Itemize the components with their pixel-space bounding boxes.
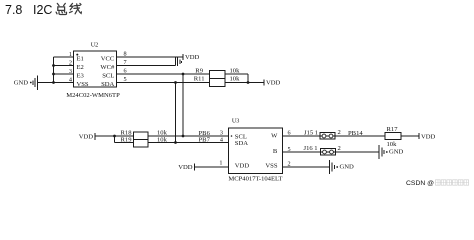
resistor R18 body (134, 132, 149, 140)
svg-text:2: 2 (338, 129, 341, 136)
svg-text:10k: 10k (230, 68, 241, 75)
svg-text:4: 4 (220, 136, 223, 143)
wire U3 B pin5 to J16 (283, 151, 321, 153)
svg-text:10k: 10k (157, 136, 168, 143)
svg-text:J16 1: J16 1 (304, 145, 318, 152)
wire U2 pin4 stub / GND wire (38, 82, 74, 84)
junction SDA drop (174, 81, 177, 84)
wire U3 pin1 VDD stub (195, 166, 230, 168)
wire U2 pin2 stub (54, 65, 74, 67)
resistor R17 body (385, 133, 401, 140)
power VDD bar at U3 pin1 (194, 163, 196, 170)
svg-text:6: 6 (288, 130, 291, 137)
wire U2 pin3 stub (54, 73, 74, 75)
junction U2 bus pin4 (52, 81, 55, 84)
svg-text:VSS: VSS (265, 163, 277, 170)
watermark hanzi blocks (436, 180, 469, 185)
resistor R9 body (210, 71, 226, 79)
U3 pin marker dot (231, 135, 233, 137)
ground bars after J16 (378, 145, 380, 159)
wire U2 left bus vertical (53, 57, 55, 83)
power VDD bar left (R18/R19) (94, 133, 96, 140)
wire WC# pin7 stub (117, 65, 176, 67)
wire J16 to GND (335, 151, 378, 153)
svg-text:6: 6 (123, 68, 126, 75)
svg-text:PB7: PB7 (199, 137, 211, 144)
svg-text:7: 7 (123, 59, 126, 66)
svg-text:E1: E1 (77, 56, 84, 63)
jumper J15 pin circles (322, 134, 333, 154)
junction PB7-SDA (174, 141, 177, 144)
svg-text:VDD: VDD (266, 80, 281, 87)
svg-text:J15 1: J15 1 (304, 129, 318, 136)
junction SCL drop (182, 73, 185, 76)
svg-text:VDD: VDD (178, 164, 193, 171)
svg-text:R19: R19 (121, 137, 133, 144)
svg-text:10k: 10k (230, 76, 241, 83)
svg-text:7.8: 7.8 (5, 3, 22, 17)
wire VDD fork vertical (114, 136, 116, 143)
svg-text:R18: R18 (121, 130, 133, 137)
svg-text:8: 8 (123, 51, 126, 58)
ground bars at VSS (328, 160, 330, 174)
title hanzi 总 (56, 3, 66, 14)
svg-text:R11: R11 (194, 76, 205, 83)
svg-text:I2C: I2C (33, 3, 52, 17)
wire U2 pin1 stub (54, 56, 74, 58)
svg-text:M24C02-WMN6TP: M24C02-WMN6TP (66, 92, 120, 99)
svg-text:E2: E2 (77, 64, 84, 71)
wire SCL pin6 to R9 (117, 73, 210, 75)
jumper J15 through wire (320, 135, 335, 137)
svg-text:GND: GND (389, 149, 404, 156)
power VDD bar right of R17 (418, 133, 420, 139)
ground dot VSS (336, 166, 338, 168)
svg-text:PB14: PB14 (348, 130, 363, 137)
digipot IC U3 box (229, 128, 283, 173)
svg-text:2: 2 (288, 161, 291, 168)
wire PB6 net R18 to U3 (148, 135, 229, 137)
wire R17 to VDD (401, 135, 419, 137)
resistor R11 body (210, 79, 226, 87)
title hanzi 线 (70, 3, 82, 13)
junction U2 bus pin3 (52, 73, 55, 76)
resistor R19 body (134, 140, 149, 148)
svg-text:E3: E3 (77, 73, 85, 80)
junction PB6-SCL (182, 135, 185, 138)
junction U2 bus pin2 (52, 64, 55, 67)
svg-text:VSS: VSS (77, 81, 89, 88)
wire R9-R11 join vertical (247, 74, 249, 83)
svg-text:3: 3 (69, 68, 72, 75)
svg-text:SCL: SCL (102, 73, 114, 80)
wire R11 right to VDD (225, 82, 264, 84)
wire SDA pin5 to R11 (117, 82, 210, 84)
svg-text:CSDN @: CSDN @ (406, 180, 434, 187)
wire VDD to R18 (95, 135, 134, 137)
jumper J16 body (321, 148, 336, 155)
wire U3 W pin6 to J15 (283, 135, 321, 137)
svg-text:MCP4017T-104ELT: MCP4017T-104ELT (228, 176, 282, 183)
wire J15 to R17 (PB14) (335, 135, 385, 137)
svg-text:1: 1 (69, 51, 72, 58)
wire VCC pin8 to VDD (117, 56, 184, 58)
wire SDA drop to PB7 (175, 83, 177, 143)
wire U3 VSS pin2 to GND (283, 166, 330, 168)
wire fork to R19 (115, 142, 134, 144)
ground dot J16 (386, 151, 388, 153)
junction VDD fork (113, 135, 116, 138)
svg-text:R17: R17 (387, 126, 399, 133)
power VDD bar pullups (263, 80, 265, 86)
ground dot left (30, 82, 32, 84)
svg-text:VDD: VDD (235, 163, 250, 170)
svg-text:2: 2 (69, 59, 72, 66)
svg-text:VDD: VDD (421, 133, 436, 140)
svg-text:W: W (271, 133, 278, 140)
wire tie VCC-WC# vertical (175, 57, 177, 66)
svg-text:SDA: SDA (101, 81, 114, 88)
wire SCL drop to PB6 (182, 74, 184, 136)
wire R9 right (225, 73, 248, 75)
jumper J16 pin circles (323, 150, 327, 154)
wire PB7 net R19 to U3 (148, 142, 229, 144)
op IC U2 box (74, 51, 117, 87)
svg-text:B: B (273, 148, 278, 155)
junction pullup join (247, 81, 250, 84)
svg-text:WC#: WC# (100, 64, 115, 71)
svg-text:GND: GND (14, 79, 29, 86)
ground symbol left bars (32, 80, 34, 85)
ground bars at WC# (177, 57, 179, 66)
svg-text:5: 5 (123, 76, 126, 83)
U2 pin1 marker dot (76, 54, 78, 56)
svg-text:10k: 10k (387, 141, 398, 148)
svg-text:VDD: VDD (185, 54, 200, 61)
jumper J15 body (320, 132, 335, 139)
svg-text:1: 1 (219, 160, 222, 167)
power VDD bar top (182, 54, 184, 60)
svg-text:4: 4 (69, 76, 72, 83)
jumper J16 through wire (321, 151, 336, 153)
svg-text:GND: GND (340, 164, 355, 171)
svg-text:SDA: SDA (235, 140, 248, 147)
svg-text:2: 2 (338, 145, 341, 152)
svg-text:U2: U2 (91, 42, 99, 49)
svg-text:VDD: VDD (79, 134, 94, 141)
svg-text:5: 5 (288, 146, 291, 153)
svg-text:U3: U3 (232, 117, 240, 124)
svg-text:R9: R9 (195, 68, 203, 75)
svg-text:VCC: VCC (101, 56, 115, 63)
